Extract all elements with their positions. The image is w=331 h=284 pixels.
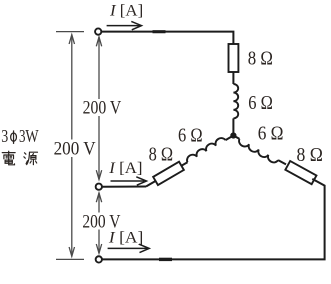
svg-text:I [A]: I [A] xyxy=(108,160,142,177)
svg-text:200 V: 200 V xyxy=(54,139,96,160)
svg-text:8 Ω: 8 Ω xyxy=(149,144,174,166)
svg-text:3: 3 xyxy=(1,126,8,146)
svg-text:6 Ω: 6 Ω xyxy=(258,123,284,145)
svg-text:6 Ω: 6 Ω xyxy=(178,124,203,146)
svg-text:8 Ω: 8 Ω xyxy=(248,48,273,70)
svg-text:200 V: 200 V xyxy=(82,211,120,232)
svg-text:W: W xyxy=(25,126,38,146)
svg-text:I [A]: I [A] xyxy=(109,3,143,20)
svg-text:6 Ω: 6 Ω xyxy=(248,92,273,114)
svg-text:8 Ω: 8 Ω xyxy=(297,144,323,166)
svg-text:200 V: 200 V xyxy=(83,98,122,119)
